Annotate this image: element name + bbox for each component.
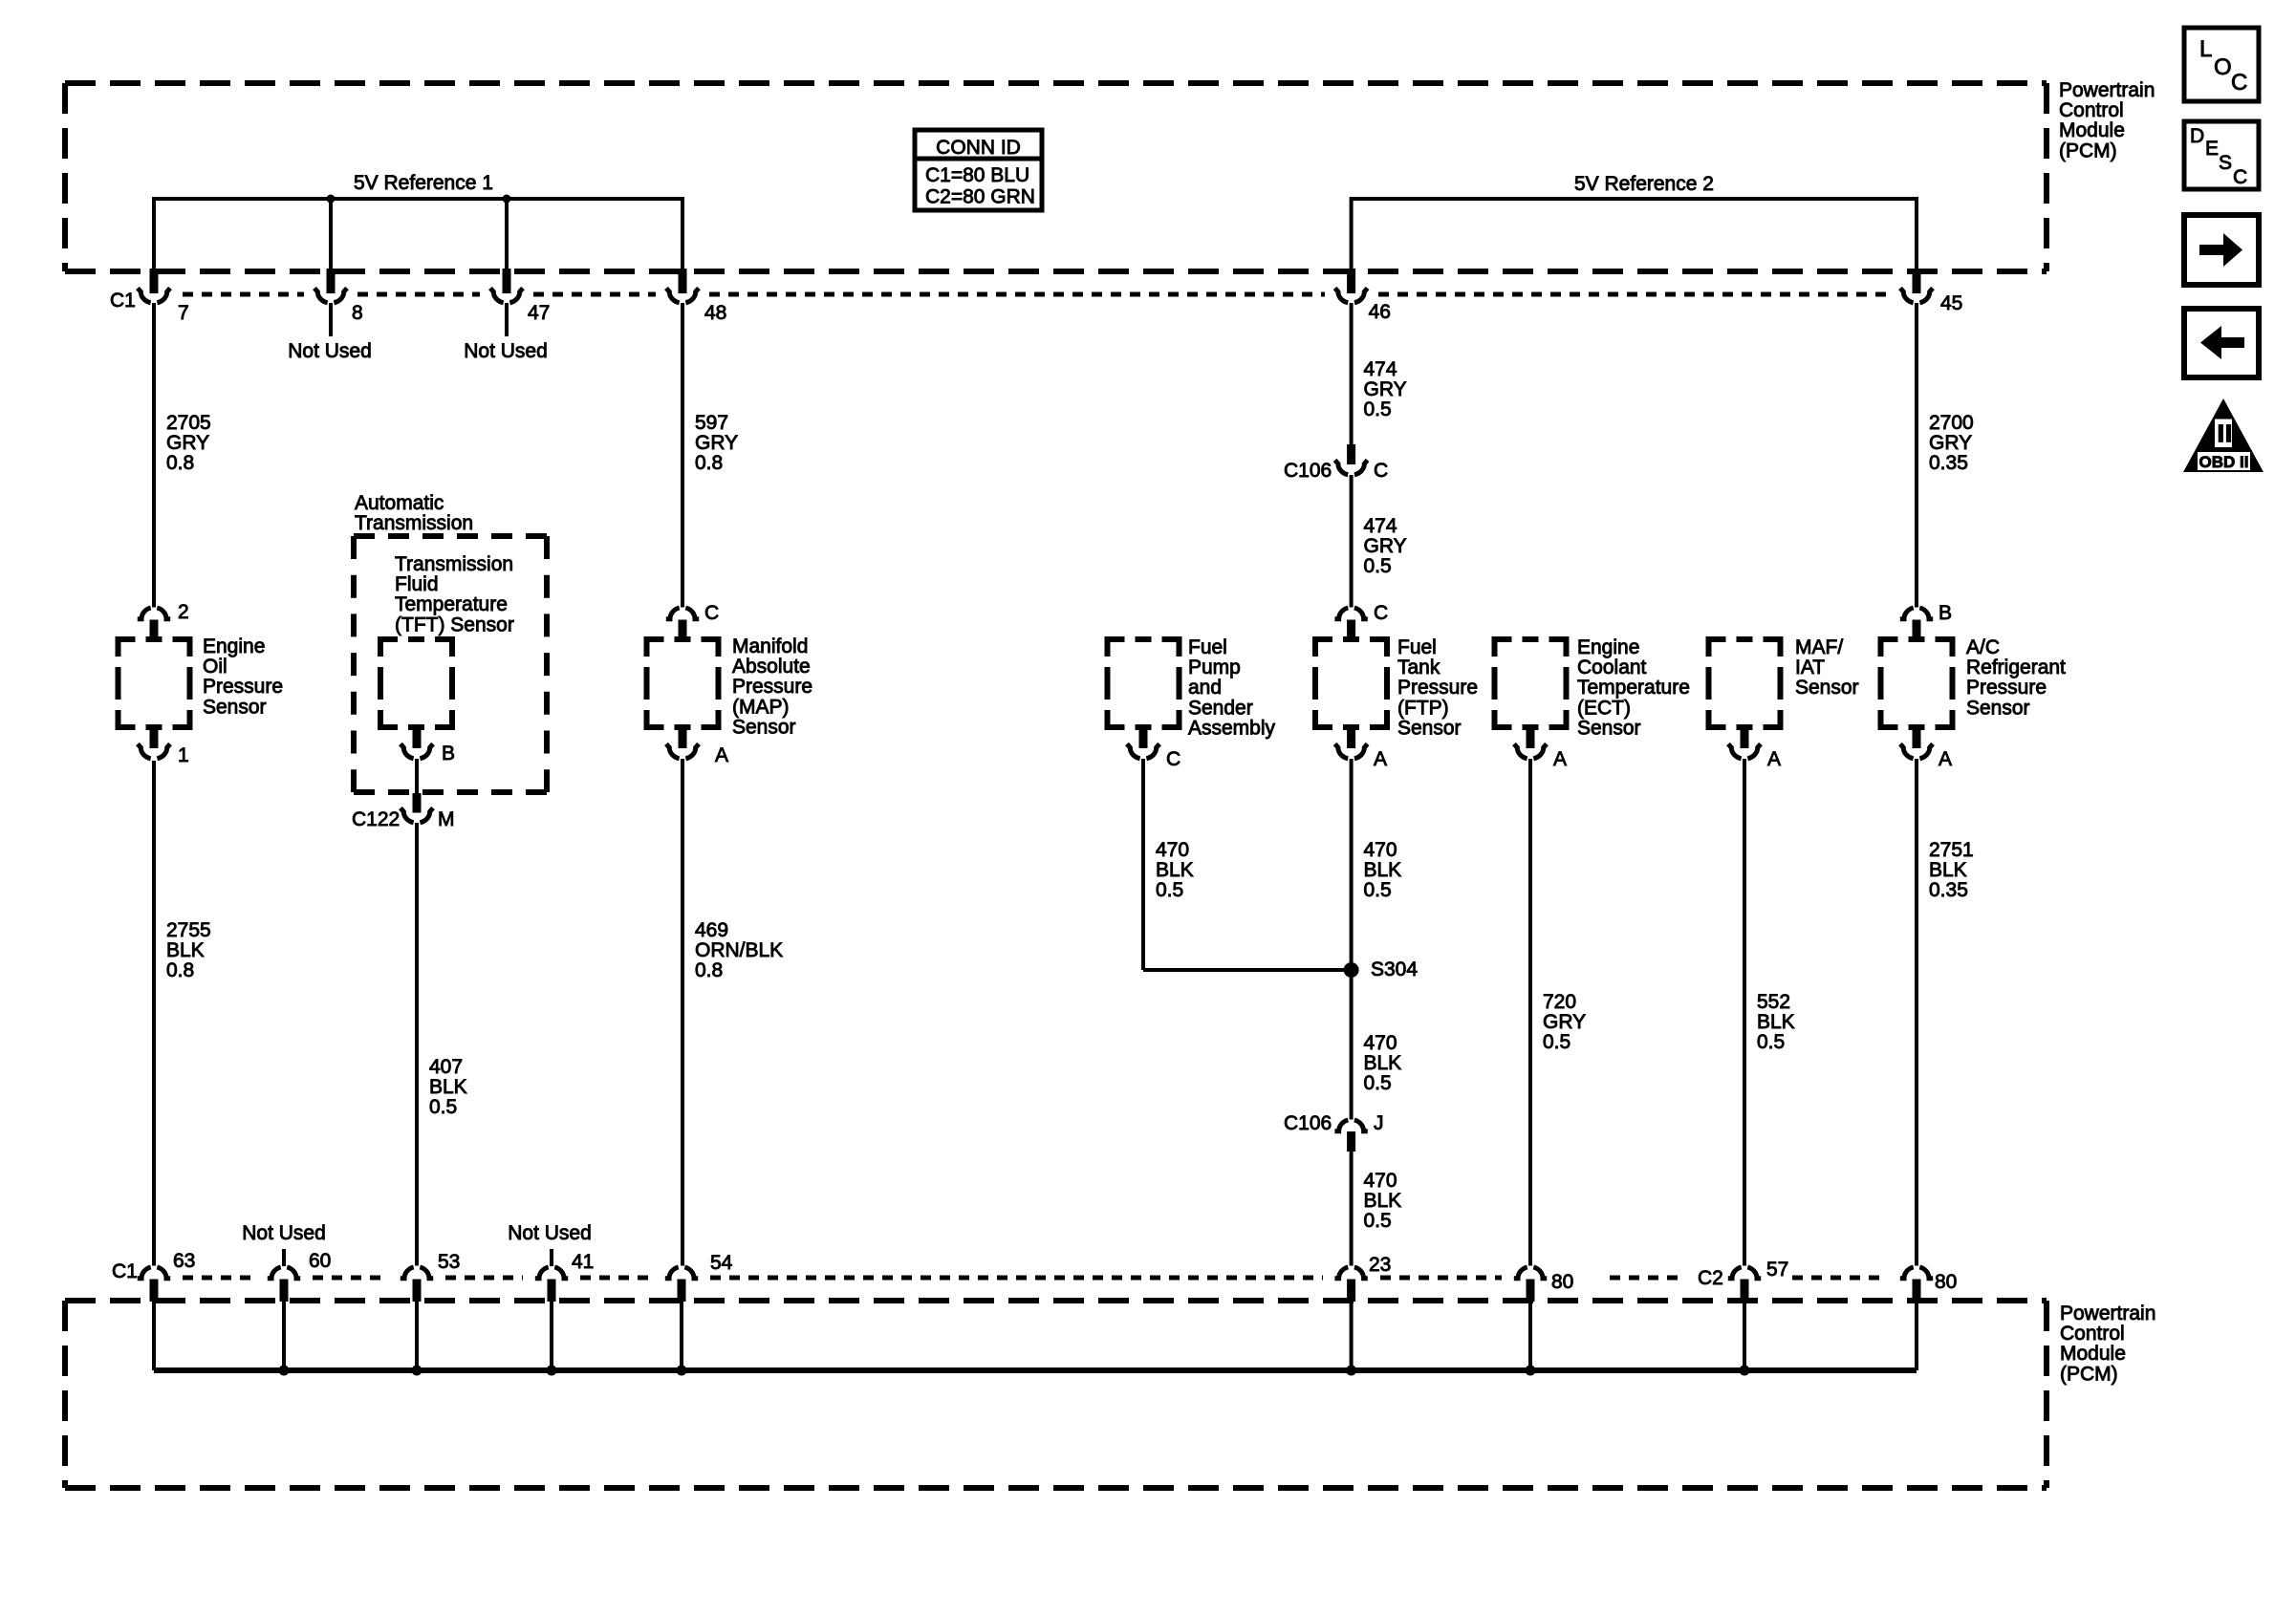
wire stub pin 60 Not Used <box>282 1249 286 1266</box>
svg-text:C2=80 GRN: C2=80 GRN <box>925 186 1035 208</box>
svg-text:0.5: 0.5 <box>1543 1031 1570 1053</box>
pin 41 (PCM bottom row) <box>535 1267 568 1279</box>
svg-text:BLK: BLK <box>1929 859 1967 881</box>
svg-text:407: 407 <box>429 1056 463 1078</box>
wire 470 BLK 0.5 (S304 to C106 J) <box>1350 970 1354 1120</box>
svg-text:Not Used: Not Used <box>242 1222 326 1244</box>
pin B (TFT sensor bottom) <box>413 727 422 748</box>
node bus junction x=1601 <box>1526 1366 1536 1376</box>
pin A (FTP sensor bottom) <box>1347 727 1355 748</box>
svg-text:23: 23 <box>1369 1254 1391 1276</box>
svg-text:Pressure: Pressure <box>1966 677 2047 699</box>
svg-text:0.5: 0.5 <box>1156 879 1183 901</box>
svg-text:C: C <box>2231 70 2247 96</box>
svg-text:Control: Control <box>2060 1323 2125 1345</box>
svg-text:GRY: GRY <box>166 432 209 454</box>
pin 80 (PCM bottom row) <box>1900 1267 1933 1279</box>
svg-text:ORN/BLK: ORN/BLK <box>695 939 783 961</box>
svg-text:1: 1 <box>178 744 189 766</box>
svg-text:GRY: GRY <box>1543 1011 1586 1033</box>
node bus junction x=436 <box>412 1366 422 1376</box>
svg-text:BLK: BLK <box>1757 1011 1795 1033</box>
svg-text:469: 469 <box>695 919 728 941</box>
svg-text:J: J <box>1374 1112 1384 1134</box>
svg-text:(MAP): (MAP) <box>732 696 790 718</box>
wire 720 GRY 0.5 (ECT to pin 80) <box>1528 759 1532 1266</box>
svg-text:Transmission: Transmission <box>355 512 473 534</box>
svg-text:B: B <box>1939 602 1952 624</box>
node bus junction x=1413.6 <box>1346 1366 1356 1376</box>
svg-text:47: 47 <box>528 302 550 324</box>
svg-text:BLK: BLK <box>1364 859 1402 881</box>
svg-text:C106: C106 <box>1284 460 1332 482</box>
wire 5V Ref1 drop to pin 8 <box>329 199 333 269</box>
svg-text:7: 7 <box>178 302 189 324</box>
svg-text:0.8: 0.8 <box>695 959 723 981</box>
svg-text:0.8: 0.8 <box>695 452 723 474</box>
svg-text:Temperature: Temperature <box>395 593 508 615</box>
svg-text:(PCM): (PCM) <box>2059 140 2117 161</box>
svg-text:O: O <box>2214 54 2232 80</box>
icon LOC box <box>2184 28 2259 101</box>
wire 5V Reference 1 bus <box>154 197 682 201</box>
pin 2 (engine oil sensor top) <box>138 608 170 619</box>
wire 2751 BLK 0.35 (A/C to pin 80) <box>1915 759 1918 1266</box>
wire 469 ORN/BLK 0.8 (MAP to pin 54) <box>681 759 684 1266</box>
svg-text:720: 720 <box>1543 991 1576 1013</box>
svg-text:Fuel: Fuel <box>1397 636 1437 658</box>
svg-text:0.35: 0.35 <box>1929 879 1968 901</box>
svg-text:C: C <box>1374 460 1388 482</box>
svg-text:B: B <box>442 743 455 764</box>
pin 23 (PCM bottom row) <box>1334 1267 1367 1279</box>
svg-text:M: M <box>438 808 455 830</box>
wire 5V Ref1 drop to pin 47 <box>505 199 509 269</box>
svg-text:474: 474 <box>1364 515 1397 537</box>
svg-text:2705: 2705 <box>166 412 211 434</box>
svg-text:(PCM): (PCM) <box>2060 1363 2118 1385</box>
svg-text:0.8: 0.8 <box>166 959 194 981</box>
pin 1 (engine oil sensor bottom) <box>150 727 159 748</box>
pin 53 (PCM bottom row) <box>401 1267 433 1279</box>
PCM bottom dashed box (Powertrain Control Module) <box>65 1298 2047 1303</box>
wire 470 BLK 0.5 (fuel pump to S304) <box>1141 759 1145 970</box>
wire 474 GRY 0.5 (C106 to FTP sensor) <box>1350 475 1354 608</box>
svg-text:45: 45 <box>1940 292 1962 314</box>
pin 45 (PCM C1 top row) <box>1913 269 1921 293</box>
svg-text:C: C <box>1374 602 1388 624</box>
svg-text:Oil: Oil <box>203 656 227 678</box>
svg-text:C: C <box>1166 748 1180 770</box>
wire 5V Reference 2 bus <box>1352 197 1917 201</box>
svg-text:0.5: 0.5 <box>1757 1031 1785 1053</box>
connector C106 pin C <box>1347 444 1355 464</box>
pin 63 (PCM bottom row) <box>138 1267 170 1279</box>
svg-text:Pump: Pump <box>1188 657 1241 678</box>
wire 552 BLK 0.5 (MAF to pin 57) <box>1743 759 1746 1266</box>
node bus junction x=577 <box>547 1366 557 1376</box>
pin A (MAF sensor bottom) <box>1741 727 1749 748</box>
svg-text:57: 57 <box>1766 1259 1788 1281</box>
svg-text:470: 470 <box>1156 839 1189 861</box>
pin 54 (PCM bottom row) <box>665 1267 698 1279</box>
transmission fluid temperature (TFT) sensor box <box>380 639 452 727</box>
svg-text:Powertrain: Powertrain <box>2059 79 2155 101</box>
svg-text:GRY: GRY <box>1364 535 1407 557</box>
svg-text:0.5: 0.5 <box>1364 1210 1392 1232</box>
svg-text:C1: C1 <box>110 290 136 312</box>
svg-text:GRY: GRY <box>1364 378 1407 400</box>
svg-text:A: A <box>1939 748 1952 770</box>
svg-text:63: 63 <box>173 1250 195 1272</box>
svg-text:2755: 2755 <box>166 919 211 941</box>
svg-text:A: A <box>715 744 728 766</box>
pin A (A/C sensor bottom) <box>1913 727 1921 748</box>
svg-text:Pressure: Pressure <box>732 676 812 698</box>
svg-text:E: E <box>2205 138 2219 160</box>
connector C122 pin M <box>415 759 419 794</box>
svg-text:Sensor: Sensor <box>1397 717 1462 739</box>
svg-text:0.5: 0.5 <box>1364 879 1392 901</box>
node bus junction x=1825 <box>1740 1366 1750 1376</box>
wire ground bus inside PCM <box>152 1302 156 1370</box>
automatic transmission dashed box <box>354 533 547 539</box>
fuel tank pressure (FTP) sensor box <box>1315 639 1387 727</box>
svg-text:Tank: Tank <box>1397 657 1440 678</box>
svg-text:BLK: BLK <box>1364 1052 1402 1074</box>
fuel pump and sender assembly box <box>1108 639 1180 727</box>
svg-text:C: C <box>2233 166 2247 188</box>
pin C (MAP sensor top) <box>666 608 699 619</box>
svg-text:Sensor: Sensor <box>732 716 796 738</box>
engine oil pressure sensor box <box>119 639 190 727</box>
svg-text:Pressure: Pressure <box>1397 677 1478 699</box>
svg-text:Refrigerant: Refrigerant <box>1966 657 2066 678</box>
svg-text:(TFT) Sensor: (TFT) Sensor <box>395 614 514 635</box>
svg-text:5V Reference 1: 5V Reference 1 <box>354 172 493 194</box>
wire 2755 BLK 0.8 (oil sensor to pin63) <box>152 761 156 1266</box>
pin C (fuel pump bottom) <box>1139 727 1148 748</box>
icon OBD II triangle <box>2183 398 2264 472</box>
icon back arrow box <box>2184 309 2259 377</box>
pin 8 (PCM C1 top row) <box>327 269 336 293</box>
svg-text:0.35: 0.35 <box>1929 452 1968 474</box>
svg-text:C106: C106 <box>1284 1112 1332 1134</box>
svg-text:Assembly: Assembly <box>1188 717 1276 739</box>
svg-text:Powertrain: Powertrain <box>2060 1303 2155 1324</box>
svg-text:GRY: GRY <box>1929 432 1972 454</box>
svg-text:0.5: 0.5 <box>1364 398 1392 420</box>
A/C refrigerant pressure sensor box <box>1881 639 1953 727</box>
wire 5V Ref2 drop to pin 46 <box>1350 197 1354 269</box>
svg-text:(ECT): (ECT) <box>1577 697 1631 719</box>
svg-text:Sensor: Sensor <box>1966 697 2030 719</box>
svg-text:Fuel: Fuel <box>1188 636 1227 658</box>
CONN ID legend box <box>915 130 1042 210</box>
svg-text:Control: Control <box>2059 99 2124 121</box>
svg-text:S: S <box>2219 152 2232 174</box>
pin C (FTP sensor top) <box>1334 608 1367 619</box>
svg-text:0.5: 0.5 <box>429 1096 457 1118</box>
svg-text:C2: C2 <box>1698 1267 1723 1289</box>
pin 57 (PCM bottom row) <box>1728 1267 1761 1279</box>
svg-text:BLK: BLK <box>166 939 205 961</box>
PCM top dashed box (Powertrain Control Module) <box>65 80 2047 86</box>
pin B (A/C sensor top) <box>1900 608 1933 619</box>
svg-text:Manifold: Manifold <box>732 635 808 657</box>
wire 5V Ref1 drop to pin 48 <box>681 197 684 269</box>
connector C1/C2 bottom row dotted line <box>183 1276 255 1281</box>
svg-text:48: 48 <box>704 302 726 324</box>
wire stub pin 41 Not Used <box>550 1249 553 1266</box>
svg-text:A/C: A/C <box>1966 636 2000 658</box>
node bus junction x=713 <box>677 1366 687 1376</box>
wire stub pin 47 Not Used <box>505 303 509 336</box>
svg-text:Engine: Engine <box>203 635 265 657</box>
svg-text:C1: C1 <box>112 1260 138 1282</box>
wire 2705 GRY 0.8 (pin7 to oil sensor) <box>152 303 156 608</box>
svg-text:Module: Module <box>2059 119 2125 141</box>
wire 470 BLK 0.5 (C106 J to pin 23) <box>1350 1152 1354 1266</box>
svg-text:C1=80 BLU: C1=80 BLU <box>925 164 1029 186</box>
wire 2700 GRY 0.35 (pin45 to A/C sensor) <box>1915 303 1918 608</box>
svg-text:C122: C122 <box>352 808 400 830</box>
svg-text:Not Used: Not Used <box>464 340 548 362</box>
pin 7 (PCM C1 top row) <box>150 269 159 293</box>
svg-text:470: 470 <box>1364 1032 1397 1054</box>
pin 48 (PCM C1 top row) <box>679 269 687 293</box>
svg-text:Temperature: Temperature <box>1577 677 1690 699</box>
connector C1 top row dotted line <box>183 292 304 297</box>
svg-text:60: 60 <box>309 1250 331 1272</box>
svg-text:D: D <box>2190 125 2204 147</box>
svg-text:GRY: GRY <box>695 432 738 454</box>
svg-text:Pressure: Pressure <box>203 676 283 698</box>
wire stub pin 8 Not Used <box>329 303 333 336</box>
icon DESC box <box>2184 121 2259 189</box>
svg-text:MAF/: MAF/ <box>1795 636 1843 658</box>
engine coolant temperature (ECT) sensor box <box>1495 639 1567 727</box>
svg-text:C: C <box>704 602 719 624</box>
svg-text:0.8: 0.8 <box>166 452 194 474</box>
svg-text:80: 80 <box>1935 1271 1957 1293</box>
connector C106 pin J <box>1334 1120 1367 1131</box>
svg-text:552: 552 <box>1757 991 1790 1013</box>
svg-text:Not Used: Not Used <box>508 1222 592 1244</box>
svg-text:A: A <box>1767 748 1781 770</box>
svg-text:Module: Module <box>2060 1343 2126 1365</box>
svg-text:Engine: Engine <box>1577 636 1639 658</box>
svg-text:Fluid: Fluid <box>395 573 439 595</box>
svg-text:Sensor: Sensor <box>203 696 267 718</box>
svg-text:CONN ID: CONN ID <box>936 137 1021 159</box>
icon forward arrow box <box>2184 215 2259 285</box>
pin 80 (PCM bottom row) <box>1514 1267 1547 1279</box>
svg-text:Sensor: Sensor <box>1577 717 1641 739</box>
pin 60 (PCM bottom row) <box>268 1267 300 1279</box>
wire 474 GRY 0.5 (pin46 to C106 C) <box>1350 303 1354 445</box>
svg-text:OBD II: OBD II <box>2199 453 2249 471</box>
pin 47 (PCM C1 top row) <box>503 269 511 293</box>
node junction pin8 on 5V Ref 1 <box>327 195 336 204</box>
svg-text:Not Used: Not Used <box>288 340 372 362</box>
svg-text:Transmission: Transmission <box>395 553 513 575</box>
svg-text:Automatic: Automatic <box>355 492 444 514</box>
svg-text:IAT: IAT <box>1795 657 1825 678</box>
svg-text:Sender: Sender <box>1188 697 1253 719</box>
svg-text:597: 597 <box>695 412 728 434</box>
svg-text:BLK: BLK <box>429 1076 467 1098</box>
svg-text:(FTP): (FTP) <box>1397 697 1449 719</box>
node junction pin47 on 5V Ref 1 <box>503 195 511 204</box>
svg-text:470: 470 <box>1364 839 1397 861</box>
svg-text:0.5: 0.5 <box>1364 555 1392 577</box>
svg-text:L: L <box>2199 36 2212 62</box>
pin A (ECT sensor bottom) <box>1527 727 1535 748</box>
svg-text:S304: S304 <box>1371 958 1418 980</box>
svg-text:470: 470 <box>1364 1170 1397 1192</box>
wire 597 GRY 0.8 (pin48 to MAP) <box>681 303 684 608</box>
wire 407 BLK 0.5 (C122 to pin 53) <box>415 823 419 1266</box>
svg-text:53: 53 <box>438 1251 460 1273</box>
svg-text:2: 2 <box>178 601 189 623</box>
svg-text:0.5: 0.5 <box>1364 1072 1392 1094</box>
MAF/IAT sensor box <box>1709 639 1781 727</box>
pin A (MAP sensor bottom) <box>679 727 687 748</box>
svg-text:and: and <box>1188 677 1222 699</box>
svg-text:2700: 2700 <box>1929 412 1974 434</box>
wire 470 BLK 0.5 (FTP to S304) <box>1350 759 1354 970</box>
svg-text:80: 80 <box>1551 1271 1573 1293</box>
manifold absolute pressure (MAP) sensor box <box>647 639 719 727</box>
node splice S304 <box>1344 962 1359 978</box>
svg-text:474: 474 <box>1364 358 1397 380</box>
svg-text:Coolant: Coolant <box>1577 657 1647 678</box>
wire 5V Ref1 drop to pin 7 <box>152 197 156 269</box>
node bus junction x=297 <box>279 1366 290 1376</box>
svg-text:5V Reference 2: 5V Reference 2 <box>1574 173 1714 195</box>
svg-text:2751: 2751 <box>1929 839 1974 861</box>
svg-text:Sensor: Sensor <box>1795 677 1859 699</box>
wire 5V Ref2 drop to pin 45 <box>1915 197 1918 269</box>
svg-text:Absolute: Absolute <box>732 656 811 678</box>
svg-text:A: A <box>1553 748 1567 770</box>
svg-text:8: 8 <box>352 302 363 324</box>
svg-text:41: 41 <box>572 1251 594 1273</box>
svg-text:54: 54 <box>710 1252 733 1274</box>
pin 46 (PCM C1 top row) <box>1347 269 1355 293</box>
svg-text:46: 46 <box>1369 301 1391 323</box>
svg-text:BLK: BLK <box>1364 1190 1402 1212</box>
svg-text:BLK: BLK <box>1156 859 1194 881</box>
svg-text:A: A <box>1374 748 1387 770</box>
